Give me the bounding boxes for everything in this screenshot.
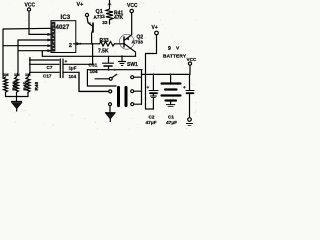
contact circle row3 right [131,103,134,106]
wire pin row y47 [19,50,52,52]
resistor R33 zigzag [100,42,115,47]
wire left vertical bus 2 [17,40,19,72]
wire top-left horizontal [3,27,52,30]
pin2 arrowhead [77,42,81,45]
op-amp/flip-flop IC U1 4027 box [51,21,76,53]
svg-text:104: 104 [69,74,77,79]
node dot [108,69,110,71]
svg-text:Q1: Q1 [96,9,103,15]
capacitor C31 [103,56,114,69]
resistor R41 [106,0,113,24]
contact circle row1 right [131,76,134,79]
resistor R45 [14,72,28,97]
wire under-IC route [42,51,135,57]
ground bottom symbol [106,113,116,122]
V+ terminal circle [85,13,88,16]
svg-text:VCC: VCC [127,3,138,9]
capacitor C7 plates [60,59,92,70]
resistor R44 [3,72,17,96]
wire mid horizontal y69.7 [87,69,142,71]
svg-text:47K: 47K [114,15,124,21]
wire VCC drop [28,11,30,34]
wire C17 route down right [79,72,109,91]
svg-text:SW1: SW1 [127,62,138,68]
svg-text:4027: 4027 [56,24,70,31]
wire V+3 route [146,35,157,75]
svg-text:C1: C1 [168,115,174,120]
VCC right terminal circle [188,62,191,65]
node dot bus battery [170,73,172,75]
contact circle row2 right [131,90,134,93]
svg-text:7.5K: 7.5K [98,49,109,55]
svg-text:+: + [147,85,150,90]
wire vertical joining dots [29,58,31,73]
wire R33 to Q2 base [115,43,124,45]
node dot [29,59,31,61]
VCC terminal 2 circle [130,9,133,12]
wire V+ to Q1 emitter [87,17,88,23]
pin arrowhead y37.5 [48,39,52,41]
wire pin row y42 [3,45,52,47]
V+ terminal 3 circle [155,31,159,35]
svg-text:IC3: IC3 [61,14,71,21]
transistor Q1 [88,23,93,44]
wire pin2 out [74,43,100,45]
node dot pin2 [80,43,82,45]
capacitor C2 [147,74,159,97]
wire from bottom contact to ground [109,106,111,113]
ground left symbol [12,102,23,112]
wire branch down to switch [87,70,116,86]
pin arrowhead y33.5 [48,33,52,35]
svg-text:C7: C7 [47,65,53,70]
svg-text:2: 2 [69,43,72,49]
node dot [114,69,116,71]
wire right vertical to switch [141,70,143,105]
svg-text:V+: V+ [77,2,84,8]
wire VCC right drop [189,65,191,74]
contact circle row2 left [109,90,112,93]
switch body bars [117,87,120,105]
wire to ground mid [121,56,123,61]
wire C7 right up to pin2 node [92,44,94,65]
wire left vertical bus 1 [2,30,4,79]
svg-text:33: 33 [102,20,108,25]
ground mid symbol [119,62,126,66]
contact circle row1 left [109,77,112,80]
svg-text:1M: 1M [3,72,9,77]
wire pin row y37.5 [18,39,52,41]
capacitor C17 plates [60,71,79,78]
svg-text:R46: R46 [34,82,39,91]
svg-text:BATTERY: BATTERY [163,54,187,60]
svg-text:A733: A733 [132,40,144,46]
wire bank common bottom [6,96,29,98]
node dot bus C2 [152,73,154,75]
VCC terminal top-left circle [27,8,30,11]
wire VCC2 to Q2 collector [131,13,133,35]
svg-text:+: + [183,85,186,90]
wire Q2 emitter down [131,49,136,57]
ground right terminal [187,118,193,126]
wire row1 right [134,76,142,78]
svg-text:V+: V+ [152,25,158,31]
svg-text:1µF: 1µF [69,66,77,71]
capacitor C1 right [183,74,194,116]
svg-text:C17: C17 [43,74,52,79]
wire pin row y33.5 [29,33,52,35]
pin arrowhead y42 [48,45,52,47]
svg-text:+: + [65,59,68,64]
wire IC lower pins left [30,59,59,61]
svg-text:47µF: 47µF [146,120,157,126]
wire bottom contacts [134,103,142,105]
transistor Q2 [119,34,134,49]
svg-text:VCC: VCC [187,57,197,62]
wire C17 row [30,71,59,73]
battery B1 [162,74,181,106]
paper speckle noise [4,1,196,130]
wire to ground left [16,97,18,102]
node dot Q1 collector [91,43,93,45]
wire power bus [142,73,190,75]
node dot under-IC/gnd branch [121,55,123,57]
svg-text:9: 9 [168,46,171,52]
resistor R46 [25,72,39,96]
node dot [29,63,31,65]
wire Q2 collector up [131,35,132,36]
switch lever [112,74,117,77]
IC left pin band [52,22,56,52]
